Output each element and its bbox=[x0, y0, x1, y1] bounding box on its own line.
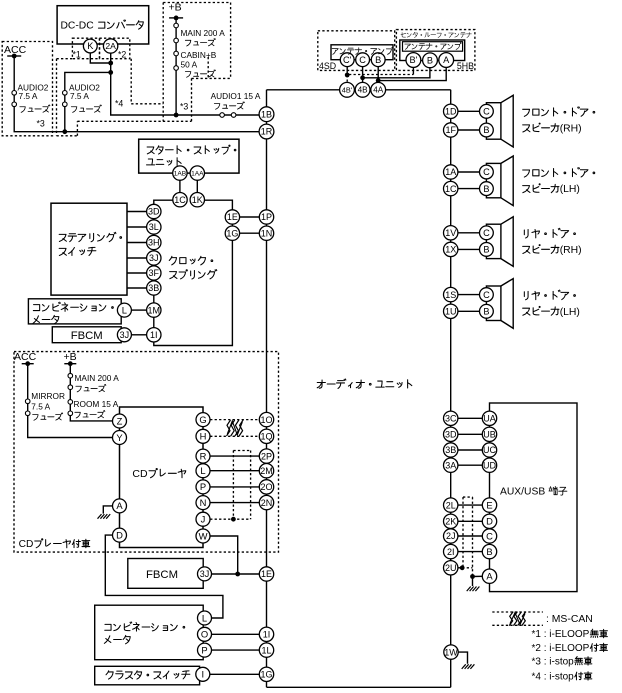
svg-text:*1: *1 bbox=[73, 49, 81, 59]
svg-text:MIRROR: MIRROR bbox=[31, 391, 65, 401]
svg-text:3J: 3J bbox=[149, 253, 159, 263]
svg-text:4A: 4A bbox=[373, 86, 384, 95]
svg-text:1AA: 1AA bbox=[191, 170, 204, 177]
svg-text:P: P bbox=[201, 644, 207, 655]
svg-text:7.5 A: 7.5 A bbox=[31, 401, 50, 411]
svg-text:1I: 1I bbox=[263, 630, 271, 640]
svg-text:C': C' bbox=[343, 55, 352, 65]
svg-text:1D: 1D bbox=[445, 107, 457, 117]
svg-text:: MS-CAN: : MS-CAN bbox=[546, 614, 593, 625]
svg-text:I: I bbox=[201, 669, 204, 680]
svg-text:5HB: 5HB bbox=[457, 61, 474, 71]
svg-text:W: W bbox=[199, 530, 208, 541]
svg-text:N: N bbox=[200, 497, 207, 508]
svg-text:*2: *2 bbox=[118, 49, 126, 59]
svg-text:2L: 2L bbox=[446, 500, 456, 510]
svg-text:4B': 4B' bbox=[342, 85, 353, 94]
svg-text:2U: 2U bbox=[445, 563, 457, 573]
svg-text:(LH): (LH) bbox=[560, 307, 580, 318]
svg-text:P: P bbox=[200, 481, 206, 492]
svg-text:1G: 1G bbox=[226, 228, 238, 238]
svg-text:C: C bbox=[483, 167, 490, 177]
svg-text:1S: 1S bbox=[445, 290, 456, 300]
svg-text:*2 : i-ELOOP: *2 : i-ELOOP bbox=[532, 643, 590, 654]
svg-text:7.5 A: 7.5 A bbox=[19, 91, 38, 101]
svg-text:R: R bbox=[200, 450, 207, 461]
svg-text:3B: 3B bbox=[445, 445, 456, 455]
svg-text:3D: 3D bbox=[148, 207, 160, 217]
svg-text:3B: 3B bbox=[148, 283, 159, 293]
svg-text:3J: 3J bbox=[120, 330, 130, 340]
svg-text:3L: 3L bbox=[149, 222, 159, 232]
svg-text:1O: 1O bbox=[260, 415, 272, 425]
svg-text:MAIN 200 A: MAIN 200 A bbox=[181, 28, 226, 38]
svg-text:*4 : i-stop: *4 : i-stop bbox=[532, 671, 575, 682]
svg-text:C: C bbox=[483, 290, 490, 300]
svg-text:MAIN 200 A: MAIN 200 A bbox=[75, 373, 120, 383]
svg-text:AUX/USB: AUX/USB bbox=[500, 487, 545, 498]
svg-text:1F: 1F bbox=[445, 125, 456, 135]
svg-text:CD: CD bbox=[19, 539, 34, 550]
svg-text:CD: CD bbox=[132, 468, 148, 480]
svg-text:(RH): (RH) bbox=[560, 245, 582, 256]
svg-text:3H: 3H bbox=[148, 238, 160, 248]
svg-text:B: B bbox=[427, 56, 433, 66]
svg-text:D: D bbox=[486, 516, 493, 527]
svg-text:1N: 1N bbox=[261, 228, 273, 238]
svg-text:C: C bbox=[359, 55, 366, 65]
svg-text:FBCM: FBCM bbox=[71, 330, 103, 342]
svg-text:2P: 2P bbox=[261, 451, 272, 461]
svg-text:+B: +B bbox=[64, 351, 77, 363]
svg-text:B: B bbox=[375, 55, 381, 65]
svg-text:Z: Z bbox=[117, 415, 123, 426]
svg-text:ACC: ACC bbox=[4, 44, 27, 56]
svg-text:3J: 3J bbox=[200, 569, 210, 579]
svg-text:J: J bbox=[201, 514, 206, 525]
svg-text:*3: *3 bbox=[180, 102, 188, 112]
svg-text:2K: 2K bbox=[445, 517, 456, 527]
svg-text:4SD: 4SD bbox=[319, 61, 336, 71]
svg-text:50 A: 50 A bbox=[181, 60, 198, 70]
svg-text:B: B bbox=[483, 184, 489, 194]
svg-text:A: A bbox=[486, 571, 493, 582]
svg-text:1P: 1P bbox=[261, 212, 272, 222]
svg-text:1R: 1R bbox=[261, 127, 273, 137]
svg-text:*3: *3 bbox=[37, 119, 45, 129]
svg-text:1V: 1V bbox=[445, 228, 456, 238]
svg-text:D: D bbox=[116, 529, 123, 540]
svg-text:G: G bbox=[199, 414, 206, 425]
svg-text:B: B bbox=[483, 125, 489, 135]
svg-text:2I: 2I bbox=[447, 547, 455, 557]
svg-text:1AB: 1AB bbox=[174, 170, 187, 177]
svg-text:7.5 A: 7.5 A bbox=[70, 91, 89, 101]
svg-text:H: H bbox=[200, 431, 207, 442]
svg-text:B': B' bbox=[409, 55, 417, 65]
svg-text:ACC: ACC bbox=[14, 351, 37, 363]
svg-text:Y: Y bbox=[116, 432, 123, 443]
svg-text:1G: 1G bbox=[260, 670, 272, 680]
svg-text:3F: 3F bbox=[149, 268, 160, 278]
svg-text:1X: 1X bbox=[445, 245, 456, 255]
svg-text:E: E bbox=[486, 499, 492, 510]
svg-text:1A: 1A bbox=[445, 167, 456, 177]
svg-text:(RH): (RH) bbox=[560, 124, 582, 135]
svg-text:+B: +B bbox=[169, 2, 182, 14]
svg-text:B: B bbox=[483, 307, 489, 317]
svg-text:1W: 1W bbox=[444, 647, 458, 657]
svg-text:UC: UC bbox=[483, 445, 496, 455]
svg-text:(LH): (LH) bbox=[560, 184, 580, 195]
svg-text:C: C bbox=[483, 107, 490, 117]
svg-text:1M: 1M bbox=[148, 305, 161, 315]
svg-text:DC-DC: DC-DC bbox=[61, 20, 95, 31]
svg-text:3A: 3A bbox=[445, 460, 456, 470]
svg-text:1E: 1E bbox=[227, 212, 238, 222]
svg-text:L: L bbox=[202, 612, 207, 623]
svg-text:2M: 2M bbox=[260, 466, 273, 476]
svg-text:*1 : i-ELOOP: *1 : i-ELOOP bbox=[532, 629, 590, 640]
svg-text:2J: 2J bbox=[446, 531, 456, 541]
svg-text:2A: 2A bbox=[105, 41, 116, 51]
svg-text:ROOM 15 A: ROOM 15 A bbox=[74, 399, 119, 409]
svg-text:UD: UD bbox=[483, 460, 496, 470]
svg-text:2O: 2O bbox=[260, 482, 272, 492]
svg-text:*3 : i-stop: *3 : i-stop bbox=[532, 656, 575, 667]
svg-text:1I: 1I bbox=[150, 330, 158, 340]
svg-text:FBCM: FBCM bbox=[146, 569, 178, 581]
svg-text:O: O bbox=[201, 629, 208, 640]
svg-text:K: K bbox=[87, 41, 94, 51]
svg-text:1Q: 1Q bbox=[260, 432, 272, 442]
svg-text:L: L bbox=[200, 465, 205, 476]
svg-text:L: L bbox=[122, 304, 127, 315]
svg-text:1U: 1U bbox=[445, 307, 457, 317]
svg-text:1L: 1L bbox=[261, 645, 271, 655]
svg-text:C: C bbox=[486, 530, 493, 541]
svg-text:B: B bbox=[486, 546, 492, 557]
svg-text:A: A bbox=[443, 55, 450, 65]
svg-text:CABIN+B: CABIN+B bbox=[181, 50, 217, 60]
svg-text:1E: 1E bbox=[261, 569, 272, 579]
svg-text:2N: 2N bbox=[261, 498, 273, 508]
svg-text:C: C bbox=[483, 228, 490, 238]
svg-text:B: B bbox=[483, 245, 489, 255]
svg-text:A: A bbox=[116, 500, 123, 511]
svg-text:UA: UA bbox=[483, 414, 496, 424]
svg-text:1K: 1K bbox=[192, 195, 203, 205]
svg-text:3D: 3D bbox=[445, 430, 457, 440]
svg-text:1C: 1C bbox=[445, 184, 457, 194]
svg-text:*4: *4 bbox=[115, 99, 123, 109]
svg-text:1C: 1C bbox=[174, 195, 186, 205]
svg-text:4B: 4B bbox=[358, 86, 369, 95]
svg-text:UB: UB bbox=[483, 430, 496, 440]
svg-text:AUDIO1 15 A: AUDIO1 15 A bbox=[211, 91, 261, 101]
svg-text:3C: 3C bbox=[445, 414, 457, 424]
svg-text:1B: 1B bbox=[261, 109, 272, 119]
